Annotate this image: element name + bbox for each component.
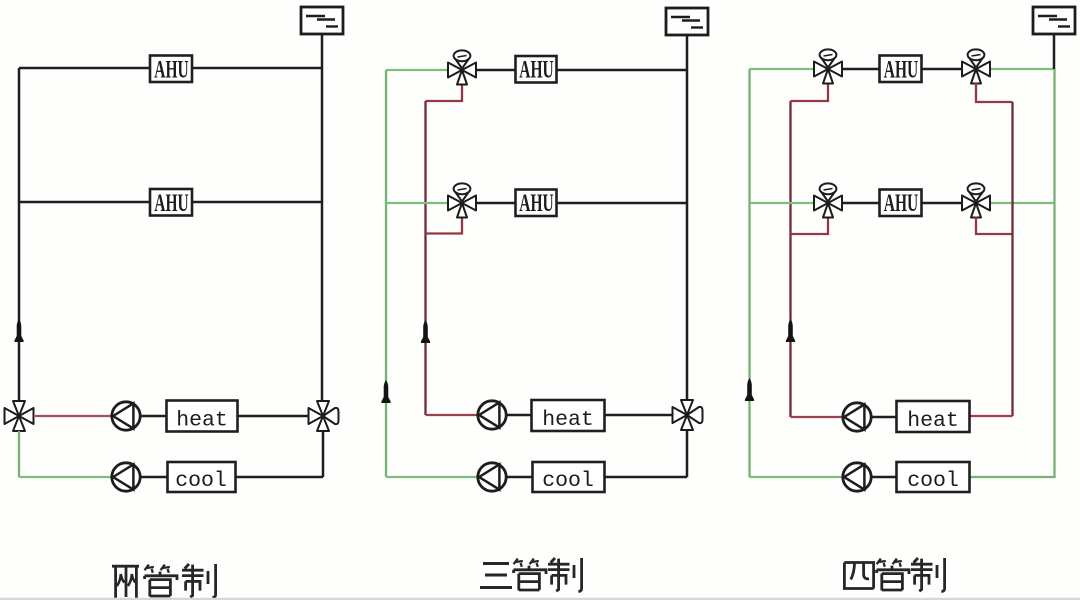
svg-text:cool: cool	[907, 469, 959, 493]
three-way valve right D2	[673, 400, 703, 430]
svg-text:heat: heat	[176, 409, 228, 433]
wire: red riser left D3	[789, 101, 791, 417]
flow arrow green riser D2	[381, 380, 390, 403]
wire: cool box to right riser D2	[605, 476, 688, 478]
wire: pump to cool box D1	[140, 476, 167, 478]
wire: red drop branch 1 left D3	[791, 83, 829, 101]
wire: red return riser D2	[424, 101, 426, 415]
wire: cool box to right riser D1	[236, 476, 324, 478]
cool box D2	[533, 462, 605, 493]
pump cool D3	[843, 463, 871, 491]
wire: valve to AHU branch 1 D2	[477, 69, 515, 71]
wire: heat box to right valve D1	[238, 415, 309, 417]
wire: pump to heat box D3	[871, 416, 896, 418]
wire: valve to AHU branch 1 D3	[843, 68, 879, 70]
motor valve branch 1 right D3	[962, 49, 990, 83]
three-way valve left D1	[5, 401, 34, 431]
svg-text:AHU: AHU	[884, 189, 918, 217]
motor valve branch 1 D2	[448, 50, 476, 84]
wire: green branch 2 left D3	[750, 202, 815, 204]
svg-text:heat: heat	[907, 409, 959, 433]
label four-pipe (CJK drawn)	[844, 558, 944, 592]
wire: AHU to riser branch 1 D2	[557, 69, 688, 71]
pump cool D1	[112, 463, 140, 491]
wire: green branch 1 right D3	[991, 68, 1055, 70]
flow arrow left riser D1	[14, 319, 23, 342]
motor valve branch 1 left D3	[814, 49, 842, 83]
svg-text:AHU: AHU	[884, 56, 918, 84]
flow arrow red riser D3	[786, 319, 795, 342]
AHU box 2 D2	[516, 189, 557, 217]
wire: green branch 2 D2	[386, 202, 448, 204]
wire: tank stem D3	[1053, 34, 1056, 69]
wire: pump to heat box D1	[140, 415, 166, 417]
wire: red riser right D3	[1011, 102, 1013, 416]
wire: left supply riser D1	[18, 68, 21, 403]
wire: below valve to cool D2	[686, 430, 689, 477]
AHU box 2 D3	[880, 189, 922, 217]
wire: red drop branch 2 D2	[426, 217, 463, 234]
heat box D1	[167, 401, 238, 433]
AHU box 2 D1	[150, 189, 192, 217]
motor valve branch 2 right D3	[962, 183, 990, 217]
wire: green supply riser left D3	[748, 69, 750, 477]
wire: right return riser D1	[321, 34, 324, 402]
wire: AHU to right valve branch 2 D3	[922, 202, 962, 204]
AHU box 1 D2	[516, 56, 557, 84]
pump heat D2	[478, 401, 506, 429]
wire: pump to cool box D2	[506, 476, 532, 478]
wire: valve to AHU branch 2 D3	[843, 202, 879, 204]
svg-text:cool: cool	[175, 469, 227, 493]
flow arrow green riser D3	[745, 378, 754, 401]
svg-text:heat: heat	[542, 408, 594, 432]
svg-text:AHU: AHU	[154, 56, 188, 84]
wire: pump to cool box D3	[871, 476, 896, 478]
expansion tank D2	[666, 8, 708, 35]
wire: green branch 2 right D3	[991, 202, 1055, 204]
wire: AHU branch 1 top line D1	[19, 67, 322, 69]
wire: red drop branch 2 left D3	[791, 217, 829, 234]
expansion tank D1	[301, 7, 343, 34]
wire: pump to heat box D2	[506, 414, 531, 416]
cool box D1	[168, 462, 236, 493]
wire: green branch 1 left D3	[750, 68, 815, 70]
expansion tank D3	[1033, 7, 1075, 34]
wire: green cool drop from left valve D1	[18, 431, 20, 477]
wire: green cool segment D3	[750, 476, 844, 478]
three-way valve right D1	[309, 401, 339, 431]
wire: riser below right valve D1	[322, 431, 325, 477]
motor valve branch 2 D2	[448, 183, 476, 217]
wire: valve to AHU branch 2 D2	[477, 202, 515, 204]
wire: right riser D2	[686, 35, 689, 401]
pump heat D1	[112, 402, 140, 430]
wire: heat box to right valve D2	[605, 414, 673, 416]
wire: green cool segment D1	[19, 476, 112, 478]
svg-text:AHU: AHU	[154, 189, 188, 217]
AHU box 1 D3	[880, 56, 922, 84]
svg-text:AHU: AHU	[519, 56, 553, 84]
wire: red drop branch 1 D2	[426, 84, 463, 101]
svg-text:cool: cool	[542, 469, 594, 493]
cool box D3	[897, 462, 970, 493]
wire: AHU to riser branch 2 D2	[557, 202, 688, 204]
pump heat D3	[843, 403, 871, 431]
AHU box 1 D1	[150, 56, 192, 84]
label three-pipe (CJK drawn)	[480, 558, 582, 592]
wire: green branch 1 D2	[386, 69, 448, 71]
label two-pipe (CJK drawn)	[112, 564, 216, 598]
motor valve branch 2 left D3	[814, 183, 842, 217]
wire: red hot segment D1	[35, 415, 112, 417]
wire: green supply riser D2	[385, 70, 387, 477]
wire: AHU to right valve branch 1 D3	[922, 68, 962, 70]
wire: AHU branch 2 line D1	[19, 201, 322, 203]
heat box D3	[897, 401, 970, 433]
wire: red drop branch 1 right D3	[976, 83, 1013, 102]
svg-text:AHU: AHU	[519, 189, 553, 217]
wire: red drop branch 2 right D3	[976, 217, 1013, 234]
wire: green riser right D3	[970, 69, 1055, 477]
bottom edge band	[0, 598, 1080, 600]
wire: green cool segment D2	[386, 476, 478, 478]
flow arrow red riser D2	[421, 320, 430, 343]
heat box D2	[532, 400, 605, 432]
pump cool D2	[478, 463, 506, 491]
